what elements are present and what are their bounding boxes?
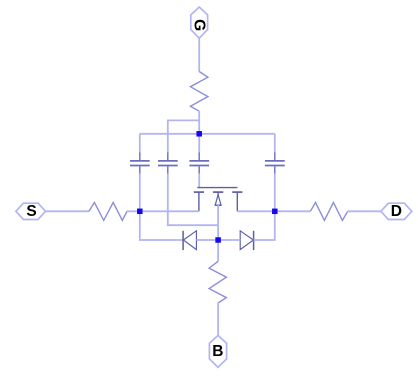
- wire mosfet drain to resistor: [237, 210, 310, 212]
- resistor R1 (gate): [190, 72, 208, 112]
- pin G: [191, 7, 208, 38]
- transistor M0: [194, 188, 243, 212]
- wire step to C2 top: [168, 120, 199, 153]
- wire C2 bottom to bulk: [168, 174, 218, 226]
- node top: [196, 131, 202, 137]
- capacitor C3: [189, 153, 209, 174]
- wire left node down to diode: [140, 211, 183, 240]
- wire C4 bottom to right node: [274, 174, 276, 212]
- diode D2: [240, 231, 253, 250]
- resistor R4 (bulk): [209, 261, 226, 303]
- wire bottom node to diode D2: [218, 239, 240, 241]
- wire diode D1 to bottom node: [196, 239, 218, 241]
- capacitor C2: [158, 153, 178, 174]
- svg-text:S: S: [26, 203, 36, 220]
- svg-text:D: D: [391, 203, 402, 220]
- wire G pin to resistor: [198, 38, 200, 71]
- wire C3 bottom to gate: [198, 174, 200, 188]
- wire resistor to D pin: [348, 210, 381, 212]
- wire C4 top lead: [274, 134, 276, 154]
- pin S: [16, 203, 46, 220]
- capacitor C1: [130, 153, 150, 174]
- wire diode D2 to right node: [254, 211, 275, 240]
- node bottom: [215, 237, 221, 243]
- resistor R2 (source): [89, 202, 127, 220]
- wire C1 top lead: [139, 134, 141, 154]
- pin D: [381, 203, 412, 220]
- diode D1: [183, 231, 196, 250]
- capacitor C4: [265, 153, 285, 174]
- wire C1 bottom to left node: [139, 174, 141, 212]
- wire bottom node to resistor: [217, 240, 219, 261]
- wire top bus: [140, 133, 275, 135]
- node left: [137, 209, 143, 215]
- pin B: [209, 335, 226, 367]
- resistor R3 (drain): [310, 202, 347, 220]
- svg-text:G: G: [191, 19, 208, 31]
- wire S pin to resistor: [46, 210, 90, 212]
- wire resistor to top node: [198, 111, 200, 134]
- wire resistor to B pin: [217, 303, 219, 336]
- svg-text:B: B: [212, 343, 223, 360]
- wire C3 top lead: [198, 134, 200, 154]
- node right: [272, 209, 278, 215]
- wire resistor to mosfet source: [127, 210, 199, 212]
- wire bulk to bottom node: [217, 205, 219, 240]
